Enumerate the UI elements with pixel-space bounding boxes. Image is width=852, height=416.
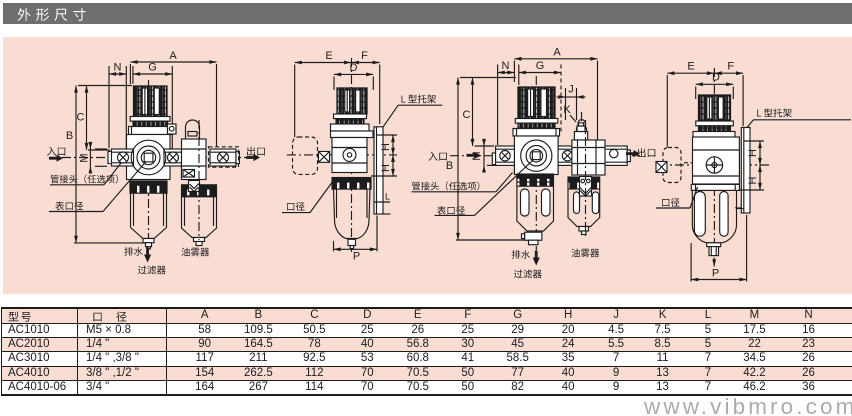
svg-text:H: H [747,176,759,184]
regulator knob (view 2) [337,88,367,114]
filter bowl (view 3) [517,186,554,231]
label pipe joint 管接头(任选项) (view 3) [412,173,513,192]
bowl (view 2) [334,189,371,248]
port circles (view 1) [131,140,166,175]
bracket plate (view 2) [374,127,383,214]
dimension J (view 3) [557,84,586,121]
svg-text:D: D [712,72,720,84]
lubricator tee body (view 3) [572,140,605,175]
dimension G (view 1) [133,62,172,150]
drain nozzle (view 4) [707,243,721,256]
filter bowl guard ring (view 1) [130,181,167,193]
title text [18,8,86,21]
body top plate (view 2) [331,131,374,138]
lubricator bowl guard ring (view 1) [182,185,217,197]
filter bowl guard ring (view 3) [517,174,554,186]
svg-text:F: F [361,50,368,62]
port centerline (view 4) [658,164,770,166]
lubricator bowl (view 3) [568,189,600,235]
bonnet plate (view 4) [693,132,735,139]
regulator knob (view 4) [699,95,731,121]
outlet flange (view 1) [210,149,239,166]
svg-text:N: N [502,60,510,72]
svg-text:D: D [350,62,358,74]
gauge assembly (view 3) [577,112,587,140]
lock ring (view 2) [336,119,364,124]
pressure gauge dashed (view 4) [663,148,681,183]
svg-text:G: G [148,62,157,74]
dimension H lower (view 2) [371,155,397,176]
dimension H lower (view 4) [739,165,764,190]
label drain 排水 (view 3) [512,250,540,266]
lubricator bowl (view 1) [182,197,217,246]
svg-text:E: E [687,61,694,73]
centerline vertical (view 4) [713,68,715,256]
gauge valve (view 4) [656,162,693,173]
dimension M (view 3) [471,139,497,172]
knob base flange (view 3) [515,119,558,124]
regulator body (view 4) [693,137,740,184]
label inlet 入口 (view 3) [428,152,480,161]
port centerline (view 1) [62,157,256,159]
watermark [644,394,852,416]
drain valve (view 1) [183,170,195,178]
svg-text:M: M [79,153,91,162]
svg-text:N: N [114,62,122,74]
bracket plate (view 4) [741,128,750,214]
dimension P (view 2) [334,216,378,263]
lock ring (view 3) [518,123,555,128]
dimension D (view 4) [696,72,734,100]
joint flange (view 1) [164,149,183,166]
lock ring (view 1) [133,121,168,126]
dimension F (view 4) [715,61,743,127]
centerline vertical (view 1) [148,80,150,247]
label gauge port 表口径 (view 3) [435,160,534,215]
lubricator tee body (view 1) [182,139,207,180]
svg-text:C: C [77,112,85,124]
dimension table [1,307,852,396]
svg-text:G: G [536,60,545,72]
lubricator centerline (view 1) [198,120,200,240]
svg-text:L: L [385,192,390,202]
svg-text:H: H [380,164,392,172]
lubricator fill plug (view 3) [574,123,587,140]
svg-text:P: P [353,251,360,263]
svg-text:C: C [463,109,471,121]
centerline vertical (view 2) [351,58,353,252]
svg-text:B: B [446,160,453,172]
label L bracket L型托架 (view 4) [747,109,851,128]
svg-text:F: F [727,61,734,73]
label inlet 入口 (view 1) [47,147,65,162]
inlet flange (view 1) [108,149,134,166]
bonnet plate (view 2) [331,124,370,131]
dimension P (view 4) [691,215,747,282]
lock ring (view 4) [699,126,731,132]
inlet flange (view 3) [492,146,514,165]
sight feeder (view 1) [189,181,200,192]
dimension M (view 1) [79,142,108,173]
filter bowl (view 1) [131,193,167,249]
dimension B (view 3) [446,78,530,241]
dimension E (view 2) [295,50,351,137]
svg-text:B: B [66,130,73,142]
dimension D (view 2) [334,62,373,90]
regulator body (view 2) [332,138,367,173]
label port 口径 (view 4) [656,187,698,208]
label gauge port 表口径 (view 1) [49,162,146,212]
lubricator centerline (view 3) [585,120,587,236]
dimension B (view 1) [66,86,149,243]
label lubricator 油雾器 (view 3) [571,249,599,258]
lubricator fill dome (view 1) [186,120,200,139]
svg-text:H: H [747,149,759,157]
svg-text:P: P [712,268,719,280]
dimension A (view 3) [514,47,597,144]
label K (view 3) [563,104,576,122]
outlet flange (view 3) [604,146,631,165]
gauge valve (view 2) [319,152,333,163]
dimension H upper (view 4) [744,141,764,165]
label lubricator 油雾器 (view 1) [181,248,209,257]
label port 口径 (view 2) [282,181,333,213]
label outlet 出口 (view 1) [246,147,265,162]
label L bracket L型托架 (view 2) [383,95,442,127]
dimension F (view 2) [352,50,380,124]
dimension N (view 1) [109,62,126,149]
dimension C (view 1) [77,86,110,151]
bonnet plate (view 3) [513,129,560,137]
joint flange (view 3) [558,146,577,165]
dimension A (view 1) [130,50,216,147]
bowl (view 4) [692,190,736,242]
regulator knob (view 3) [518,87,555,119]
svg-text:A: A [553,47,561,59]
port centerline (view 3) [450,155,640,157]
label drain 排水 (view 1) [124,247,151,263]
dimension N (view 3) [498,60,515,145]
knob base flange (view 1) [130,117,170,122]
centerline vertical (view 3) [535,76,537,250]
regulator knob (view 1) [134,86,168,117]
port centerline (view 2) [287,154,397,156]
svg-text:K: K [563,104,571,116]
title bar 外形尺寸 [3,3,852,24]
gauge boss (view 1) [168,124,177,134]
label outlet 出口 (view 3) [626,148,655,157]
dimension H upper (view 2) [377,135,397,155]
knob base flange (view 4) [696,121,734,126]
pink drawing panel [3,37,852,294]
label filter 过滤器 (view 1) [138,266,166,275]
label L bracket thickness (view 4) [734,204,745,209]
sight feeder (view 3) [580,177,592,197]
svg-text:E: E [325,50,332,62]
label pipe joint 管接头(任选项) (view 1) [50,163,121,185]
port circles (view 3) [521,140,552,171]
drain direction arrow (view 4) [713,258,715,267]
svg-text:H: H [380,143,392,151]
bowl guard ring (view 2) [332,178,371,190]
bowl collar (view 4) [691,184,739,190]
dimension C (view 3) [463,78,494,147]
svg-text:J: J [568,84,574,96]
lubricator bowl guard ring (view 3) [568,177,600,189]
dimension E (view 4) [667,61,714,148]
dimension G (view 3) [519,60,561,132]
knob base flange (view 2) [334,114,367,119]
label L bracket thickness (view 2) [374,192,391,215]
label filter 过滤器 (view 3) [514,270,542,279]
optional fitting outline (view 1) [209,147,239,167]
regulator body box (view 1) [127,135,171,180]
regulator body box (view 3) [514,136,558,175]
svg-text:A: A [169,50,177,62]
drain petcock (view 3) [522,232,542,245]
pressure gauge dashed (view 2) [293,137,318,174]
bonnet plate (view 1) [129,127,172,135]
